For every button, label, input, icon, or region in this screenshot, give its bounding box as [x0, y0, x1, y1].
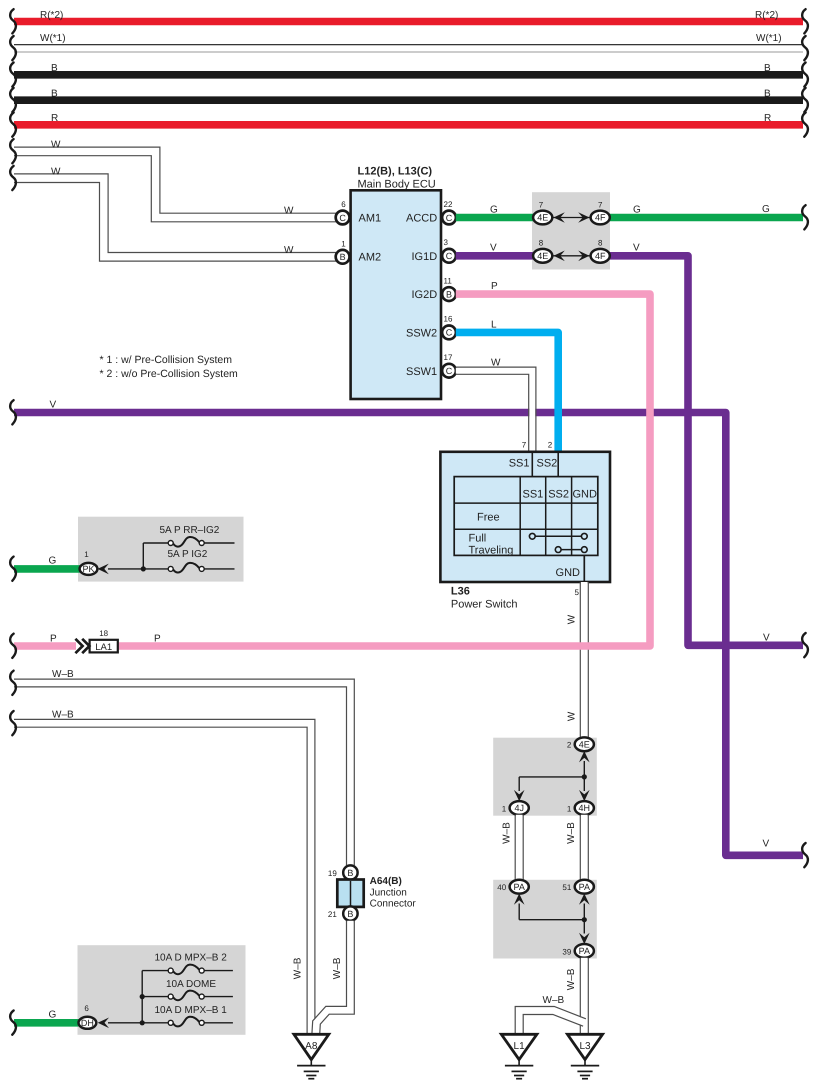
- svg-text:4F: 4F: [595, 251, 606, 261]
- svg-text:4F: 4F: [595, 213, 606, 223]
- svg-text:51: 51: [562, 883, 571, 892]
- svg-text:B: B: [347, 868, 353, 878]
- svg-text:SS2: SS2: [548, 489, 569, 501]
- svg-text:11: 11: [444, 276, 453, 285]
- svg-text:P: P: [154, 634, 161, 645]
- svg-text:P: P: [50, 634, 57, 645]
- svg-text:4E: 4E: [579, 740, 590, 750]
- svg-text:17: 17: [444, 353, 453, 362]
- svg-text:W: W: [491, 358, 501, 369]
- svg-text:PK: PK: [82, 564, 94, 574]
- svg-text:SSW2: SSW2: [406, 328, 437, 340]
- svg-text:W–B: W–B: [332, 957, 343, 979]
- svg-text:DH: DH: [81, 1018, 94, 1028]
- svg-text:R(*2): R(*2): [755, 10, 778, 21]
- svg-text:B: B: [446, 289, 452, 299]
- svg-text:R(*2): R(*2): [40, 10, 63, 21]
- svg-text:Power Switch: Power Switch: [451, 599, 518, 611]
- svg-text:Traveling: Traveling: [469, 544, 514, 556]
- svg-text:5A P IG2: 5A P IG2: [168, 549, 208, 560]
- svg-text:R: R: [51, 113, 58, 124]
- svg-text:A8: A8: [305, 1041, 318, 1052]
- svg-text:GND: GND: [556, 567, 581, 579]
- svg-text:Junction: Junction: [370, 887, 407, 898]
- svg-text:21: 21: [328, 910, 337, 919]
- svg-text:Connector: Connector: [370, 899, 417, 910]
- svg-text:IG1D: IG1D: [412, 251, 438, 263]
- svg-text:B: B: [51, 89, 58, 100]
- svg-text:W–B: W–B: [52, 709, 74, 720]
- svg-text:C: C: [446, 366, 453, 376]
- svg-text:10A D MPX–B 2: 10A D MPX–B 2: [155, 952, 228, 963]
- svg-text:B: B: [764, 63, 771, 74]
- svg-text:16: 16: [444, 315, 453, 324]
- svg-text:1: 1: [84, 550, 89, 559]
- svg-text:4J: 4J: [514, 803, 524, 813]
- svg-text:W–B: W–B: [292, 957, 303, 979]
- svg-text:7: 7: [522, 440, 527, 449]
- svg-text:19: 19: [328, 869, 337, 878]
- svg-text:C: C: [446, 251, 453, 261]
- svg-text:40: 40: [497, 883, 506, 892]
- svg-text:Main Body ECU: Main Body ECU: [358, 179, 436, 191]
- svg-text:L3: L3: [579, 1041, 591, 1052]
- svg-text:V: V: [490, 243, 497, 254]
- svg-text:G: G: [490, 204, 498, 215]
- svg-text:W–B: W–B: [566, 822, 577, 844]
- svg-text:8: 8: [598, 239, 603, 248]
- svg-text:SS1: SS1: [509, 458, 530, 470]
- svg-text:Free: Free: [477, 512, 500, 524]
- svg-text:10A D MPX–B 1: 10A D MPX–B 1: [155, 1005, 228, 1016]
- svg-text:IG2D: IG2D: [412, 289, 438, 301]
- svg-text:3: 3: [444, 238, 449, 247]
- svg-text:1: 1: [567, 804, 572, 813]
- svg-text:W: W: [284, 245, 294, 256]
- svg-text:P: P: [491, 281, 498, 292]
- svg-text:W: W: [567, 711, 578, 721]
- svg-text:Full: Full: [469, 533, 487, 545]
- svg-text:10A DOME: 10A DOME: [166, 979, 216, 990]
- svg-text:L1: L1: [514, 1041, 526, 1052]
- svg-text:* 1 : w/ Pre-Collision System: * 1 : w/ Pre-Collision System: [100, 354, 233, 366]
- svg-text:V: V: [763, 633, 770, 644]
- svg-text:SS1: SS1: [523, 489, 544, 501]
- svg-text:PA: PA: [579, 946, 590, 956]
- svg-text:2: 2: [567, 741, 572, 750]
- svg-text:* 2 : w/o Pre-Collision System: * 2 : w/o Pre-Collision System: [100, 368, 239, 380]
- svg-text:W: W: [51, 166, 61, 177]
- svg-text:1: 1: [341, 239, 346, 248]
- svg-text:W–B: W–B: [52, 669, 74, 680]
- svg-text:W–B: W–B: [566, 968, 577, 990]
- svg-text:L12(B), L13(C): L12(B), L13(C): [358, 166, 433, 178]
- svg-text:R: R: [764, 113, 771, 124]
- svg-text:V: V: [50, 400, 57, 411]
- svg-text:GND: GND: [572, 489, 597, 501]
- svg-text:SS2: SS2: [537, 458, 558, 470]
- svg-text:G: G: [49, 1009, 57, 1020]
- svg-text:ACCD: ACCD: [406, 213, 437, 225]
- svg-text:1: 1: [502, 804, 507, 813]
- svg-text:W: W: [567, 614, 578, 624]
- svg-text:4E: 4E: [537, 251, 548, 261]
- svg-text:W: W: [284, 206, 294, 217]
- svg-text:SSW1: SSW1: [406, 366, 437, 378]
- svg-text:7: 7: [598, 200, 603, 209]
- svg-text:C: C: [339, 213, 346, 223]
- svg-text:G: G: [633, 204, 641, 215]
- svg-text:PA: PA: [514, 882, 525, 892]
- svg-text:B: B: [340, 252, 346, 262]
- svg-text:C: C: [446, 213, 453, 223]
- svg-text:AM2: AM2: [359, 252, 382, 264]
- svg-text:5: 5: [575, 588, 580, 597]
- svg-text:G: G: [762, 204, 770, 215]
- svg-text:W: W: [51, 140, 61, 151]
- svg-text:V: V: [763, 839, 770, 850]
- svg-text:4H: 4H: [579, 803, 591, 813]
- svg-text:LA1: LA1: [95, 642, 112, 653]
- svg-text:39: 39: [562, 947, 571, 956]
- svg-text:W–B: W–B: [543, 995, 565, 1006]
- svg-text:22: 22: [444, 200, 453, 209]
- svg-text:L: L: [491, 319, 497, 330]
- svg-text:C: C: [446, 328, 453, 338]
- svg-text:6: 6: [84, 1004, 89, 1013]
- svg-text:2: 2: [548, 440, 553, 449]
- svg-text:AM1: AM1: [359, 212, 382, 224]
- svg-text:B: B: [347, 909, 353, 919]
- svg-text:8: 8: [539, 239, 544, 248]
- svg-text:B: B: [764, 89, 771, 100]
- svg-text:7: 7: [539, 200, 544, 209]
- svg-text:B: B: [51, 63, 58, 74]
- svg-text:W(*1): W(*1): [756, 33, 782, 44]
- svg-text:A64(B): A64(B): [370, 876, 402, 887]
- svg-text:PA: PA: [579, 882, 590, 892]
- svg-text:18: 18: [99, 629, 108, 638]
- svg-text:G: G: [49, 556, 57, 567]
- svg-text:W–B: W–B: [501, 822, 512, 844]
- svg-text:4E: 4E: [537, 213, 548, 223]
- svg-text:W(*1): W(*1): [40, 33, 66, 44]
- svg-text:L36: L36: [451, 586, 470, 598]
- svg-text:6: 6: [341, 200, 346, 209]
- svg-text:5A P RR–IG2: 5A P RR–IG2: [160, 525, 220, 536]
- svg-text:V: V: [633, 243, 640, 254]
